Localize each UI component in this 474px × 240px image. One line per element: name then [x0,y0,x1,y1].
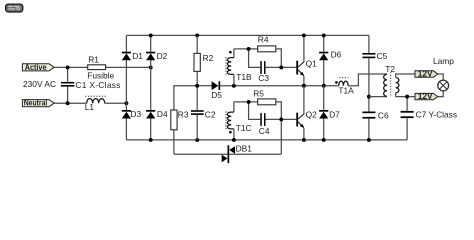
junction C1 bottom [66,101,70,105]
svg-text:R1: R1 [88,55,99,65]
capacitor C6 [362,97,375,140]
svg-text:D3: D3 [130,109,141,119]
diode D4 [146,110,155,119]
junction Q2 base node [279,117,283,121]
node 12V flag bottom [415,91,438,101]
resistor R5 [258,99,276,105]
junction bottom rail Q2 [302,138,306,142]
resistor R4 [258,46,276,52]
wire C4 branch [249,102,261,120]
junction top rail R2 [195,33,199,37]
junction top rail D2 [149,33,153,37]
svg-text:C2: C2 [205,110,216,120]
transformer T2 [384,72,415,97]
junction bottom rail D4 [149,138,153,142]
wire Q1 base [266,66,297,68]
svg-text:C1 X-Class: C1 X-Class [75,80,120,90]
wire Neutral row left [54,102,87,104]
diode D2 [146,52,155,61]
junction mid D6 [322,84,326,88]
svg-text:C5: C5 [377,51,388,61]
svg-text:Neutral: Neutral [24,98,48,108]
capacitor C4 [260,113,265,126]
resistor R1 [88,65,106,70]
svg-text:12V: 12V [418,91,433,101]
wire lamp bottom [438,91,443,97]
junction bottom rail D7 [322,138,326,142]
lamp [438,80,449,91]
diode D1 [122,52,131,61]
wire Q2 emitter [303,128,305,140]
svg-text:C7 Y-Class: C7 Y-Class [416,109,457,119]
svg-text:L1: L1 [85,102,95,112]
capacitor C5 [362,35,375,96]
junction Q1 base node [279,65,283,69]
node Active flag [22,62,54,72]
svg-text:D2: D2 [157,51,168,61]
wire diac row [174,153,281,155]
svg-text:C6: C6 [378,110,389,120]
svg-text:Lamp: Lamp [433,56,454,66]
svg-text:Active: Active [25,62,47,72]
wire T1A to T2 primary top [348,74,387,86]
wire Q2 base [266,118,297,120]
diode D7 [319,86,328,140]
wire Active row [54,66,151,68]
junction Active-D2D4 [149,65,153,69]
svg-text:T1B: T1B [236,72,252,82]
junction bottom rail C2 [195,138,199,142]
junction top rail Q1 [302,33,306,37]
junction C5C6 mid [367,95,371,99]
svg-text:D4: D4 [157,109,168,119]
junction T1C-R5-C4 [247,100,251,104]
resistor R3 with jog [171,86,197,154]
junction Neutral-D1D3 [124,101,128,105]
svg-text:Fusible: Fusible [87,71,114,81]
wire top rail [126,34,369,36]
svg-text:R5: R5 [253,88,264,98]
wire mid row main [220,85,338,87]
svg-text:T1A: T1A [338,86,354,96]
transformer winding T1C [226,102,234,140]
svg-text:R2: R2 [203,53,214,63]
wire C3 branch [249,49,261,68]
svg-text:R4: R4 [258,35,269,45]
wire R4 right corner [276,49,282,68]
diode D3 [122,110,131,119]
junction C1 top [66,65,70,69]
junction mid Q1Q2 [302,84,306,88]
svg-text:D7: D7 [329,110,340,120]
wire Q1 collector [303,35,305,62]
wire D2-D4 column [150,35,152,139]
junction top rail D6 [322,33,326,37]
wire Neutral row right [105,102,127,104]
svg-text:T2: T2 [385,64,395,74]
node 12V flag top [415,69,438,79]
svg-text:DB1: DB1 [236,144,253,154]
svg-text:D5: D5 [211,90,222,100]
junction C7 top [405,95,409,99]
capacitor C2 [191,86,204,140]
capacitor C1 [61,67,75,103]
wire D1-D3 column [125,35,127,139]
svg-text:C4: C4 [259,126,270,136]
wire T1B top row [234,48,258,50]
svg-text:Q1: Q1 [306,59,318,69]
transformer winding T1A [335,78,348,86]
wire T2 primary bottom [369,96,387,98]
wire T1C top row [234,101,258,103]
transistor Q2 [296,113,304,128]
diac DB1 [222,145,235,163]
svg-text:R3: R3 [178,110,189,120]
svg-text:T1C: T1C [236,123,252,133]
capacitor C3 [260,61,265,74]
inductor L1 [85,96,106,103]
junction bottom rail T1C [232,138,236,142]
capacitor C7 [401,97,414,140]
svg-text:D1: D1 [132,51,143,61]
wire mid row left [197,85,211,87]
svg-text:D6: D6 [331,49,342,59]
wire bottom rail [126,139,407,141]
junction bottom rail C6 [367,138,371,142]
diode D5 [212,81,221,90]
svg-text:C3: C3 [258,73,269,83]
junction mid T1B bottom [232,84,236,88]
transformer winding T1B [226,49,234,86]
wire Q1 emitter [303,76,305,86]
wire R5 right corner down to diac row [276,102,282,154]
logo badge top-left [6,4,23,12]
junction T1B-R4-C3 [247,47,251,51]
svg-text:12V: 12V [418,69,433,79]
diode D6 [319,35,328,85]
svg-text:230V AC: 230V AC [23,79,56,89]
wire Q2 collector [303,86,305,114]
node Neutral flag [22,98,54,108]
svg-text:Q2: Q2 [306,110,318,120]
junction mid R2C2D5 [195,84,199,88]
wire lamp top [438,74,443,80]
transistor Q1 [296,61,304,76]
resistor R2 [194,35,200,85]
